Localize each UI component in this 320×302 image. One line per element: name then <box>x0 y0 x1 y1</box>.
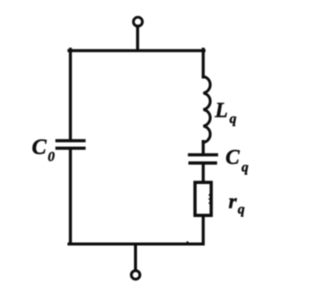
wire Cq to rq <box>202 164 205 181</box>
wire left upper <box>69 49 72 139</box>
inductor Lq <box>203 77 210 143</box>
wire bottom <box>69 243 203 246</box>
svg-text:r: r <box>229 189 238 213</box>
svg-text:q: q <box>242 161 249 176</box>
resistor inner mark <box>210 195 212 203</box>
svg-text:q: q <box>230 112 237 127</box>
wire left lower <box>69 150 72 244</box>
wire top <box>69 49 204 52</box>
wire inductor to Cq <box>202 142 205 154</box>
svg-text:C: C <box>226 145 241 169</box>
svg-text:q: q <box>238 203 245 218</box>
wire bottom stub <box>134 244 137 270</box>
wire below rq <box>202 216 205 245</box>
svg-text:L: L <box>214 98 228 122</box>
capacitor C0 <box>57 141 84 149</box>
terminal bottom <box>131 271 140 280</box>
wire top stub <box>136 26 139 50</box>
svg-text:C: C <box>32 134 47 159</box>
wire right upper <box>202 49 205 77</box>
capacitor Cq <box>190 155 217 163</box>
resistor rq <box>195 182 211 215</box>
terminal top <box>133 17 142 26</box>
speck on bottom wire <box>187 242 190 243</box>
svg-text:0: 0 <box>48 150 55 165</box>
